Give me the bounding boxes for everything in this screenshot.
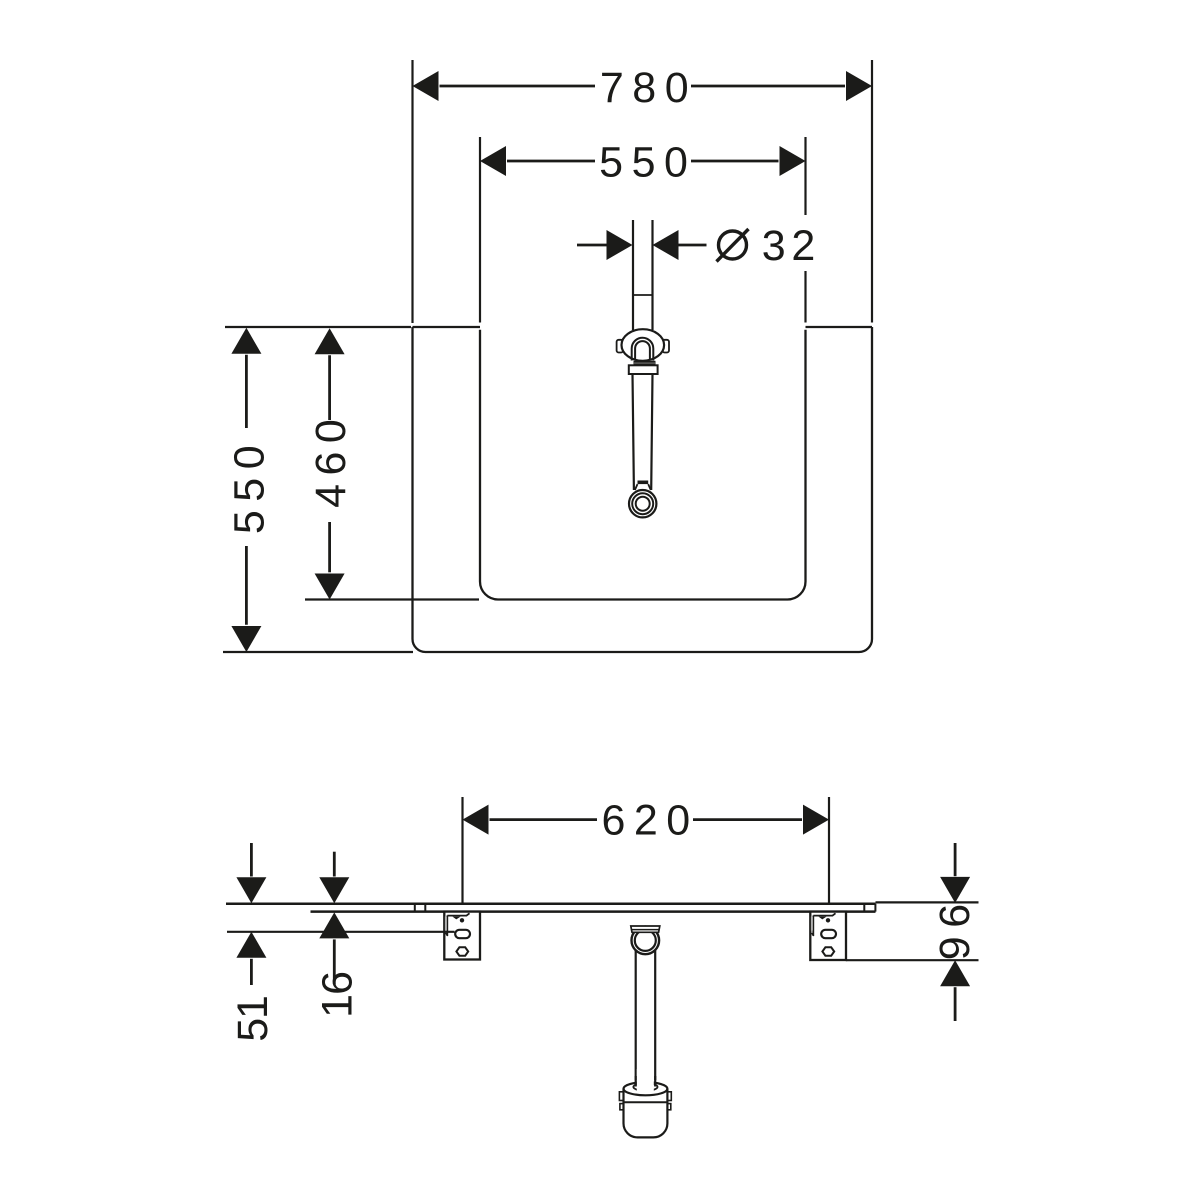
drain pipe upper (front view) [633,220,653,330]
svg-text:780: 780 [600,64,697,112]
dimension 780 arrow right [846,71,872,101]
svg-text:2: 2 [791,222,823,270]
dimension diameter 32 left tail [577,244,607,247]
drain flange inner bend inner arc [635,341,650,360]
dimension 460 arrow top [315,328,345,354]
dimension 620 line [490,818,803,821]
trap flange bar [631,926,660,932]
dimension 51 arrow down [236,877,266,903]
dimension 96 arrow up [940,960,970,986]
diameter symbol [719,231,747,259]
dimension 51 stem bottom [250,959,253,985]
dimension 620 arrow right [803,805,829,835]
dimension 780 arrow left [413,71,439,101]
dimension 51 arrow up [236,932,266,958]
svg-text:460: 460 [307,411,355,508]
basin inner bowl cutout [480,330,806,600]
dimension 550 height arrow top [231,328,261,354]
console plate top line (with left extension) [226,902,876,905]
drain outlet ring outer [629,490,656,517]
svg-text:1: 1 [229,987,277,1019]
trap cup body [624,1089,668,1138]
trap cup top ellipse [624,1082,668,1095]
svg-text:6: 6 [314,962,362,994]
dimension 550 height stem bottom [245,546,248,625]
left extension line inner bottom (y=599.5) [305,598,479,600]
drain clamp band [638,481,649,485]
extension line 550 left (x=480) [479,137,481,323]
dimension 96 arrow down [940,877,970,903]
basin rim top-left segment [413,326,481,328]
drain seal band [634,361,656,366]
dimension 96 stem bottom [954,987,957,1021]
trap outlet ring (bottom view) [632,927,660,955]
dimension 96 stem top [954,843,957,876]
trap pipe lower lines [636,1076,656,1087]
dimension 550 width arrow left [480,146,506,176]
right wall bracket [810,912,846,960]
drain flange right ear [663,340,670,353]
extension line 620 right (x=829) [828,797,830,903]
left wall bracket [444,912,480,960]
drain outlet ring inner [636,497,650,511]
dimension 550 height arrow bottom [231,626,261,652]
extension line 550 right (x=805.5, gap at diameter text) [804,137,806,323]
extension line right (780 dim, x=872) [871,60,873,323]
left extension line outer bottom (y=652) [223,651,413,653]
drain locknut [629,365,658,374]
console plate bottom line (with left extension) [311,910,876,913]
drain tailpipe [633,374,653,490]
trap cup inner ellipse [633,1083,657,1091]
extension line 51 (y=931.8) [227,931,455,933]
extension line 96 top (y=902.4) [876,901,979,903]
dimension diameter 32 left arrow [607,230,633,260]
extension line 620 left (x=462.5) [461,797,463,903]
dimension diameter 32 right tail [679,244,707,247]
extension line 96 bottom (y=960.2) [846,959,979,961]
dimension 620 arrow left [463,805,489,835]
extension line left (780 dim, x=412.5) [411,60,413,323]
trap vertical pipe [636,950,656,1080]
trap cup right clip [667,1092,672,1101]
dimension 460 arrow bottom [315,574,345,600]
drain flange inner bend outer arc [632,338,654,361]
dimension 460 stem top [328,355,331,420]
svg-text:550: 550 [599,138,696,186]
drain clamp flare [635,484,651,490]
trap cup pipe white cover [637,1069,654,1092]
left extension line top (y=327) [225,326,411,328]
dimension 16 stem bottom [333,939,336,984]
trap cup left clip [619,1092,624,1101]
svg-text:620: 620 [601,796,698,844]
drain outlet ring middle [632,493,653,514]
drain flange body [622,329,665,361]
trap cup joint line [624,1101,668,1103]
svg-text:550: 550 [225,437,273,534]
dimension 16 arrow down [319,877,349,903]
console plate right end caps [864,904,875,912]
console plate left end caps [415,904,426,912]
dimension 16 arrow up [319,912,349,938]
dimension 550 width line [507,160,779,163]
dimension 550 height stem top [245,355,248,428]
dimension 550 width arrow right [780,146,806,176]
svg-text:3: 3 [762,222,794,270]
basin rim top-right segment [806,326,873,328]
dimension 780 line [440,85,846,88]
dimension 460 stem bottom [328,522,331,572]
dimension 16 stem top [333,852,336,877]
drain pipe joint line [633,294,653,296]
svg-text:96: 96 [931,895,979,960]
basin outer outline (front view) [413,327,873,652]
drain flange left ear [617,340,624,353]
dimension diameter 32 right arrow [653,230,679,260]
dimension 51 stem top [250,843,253,877]
